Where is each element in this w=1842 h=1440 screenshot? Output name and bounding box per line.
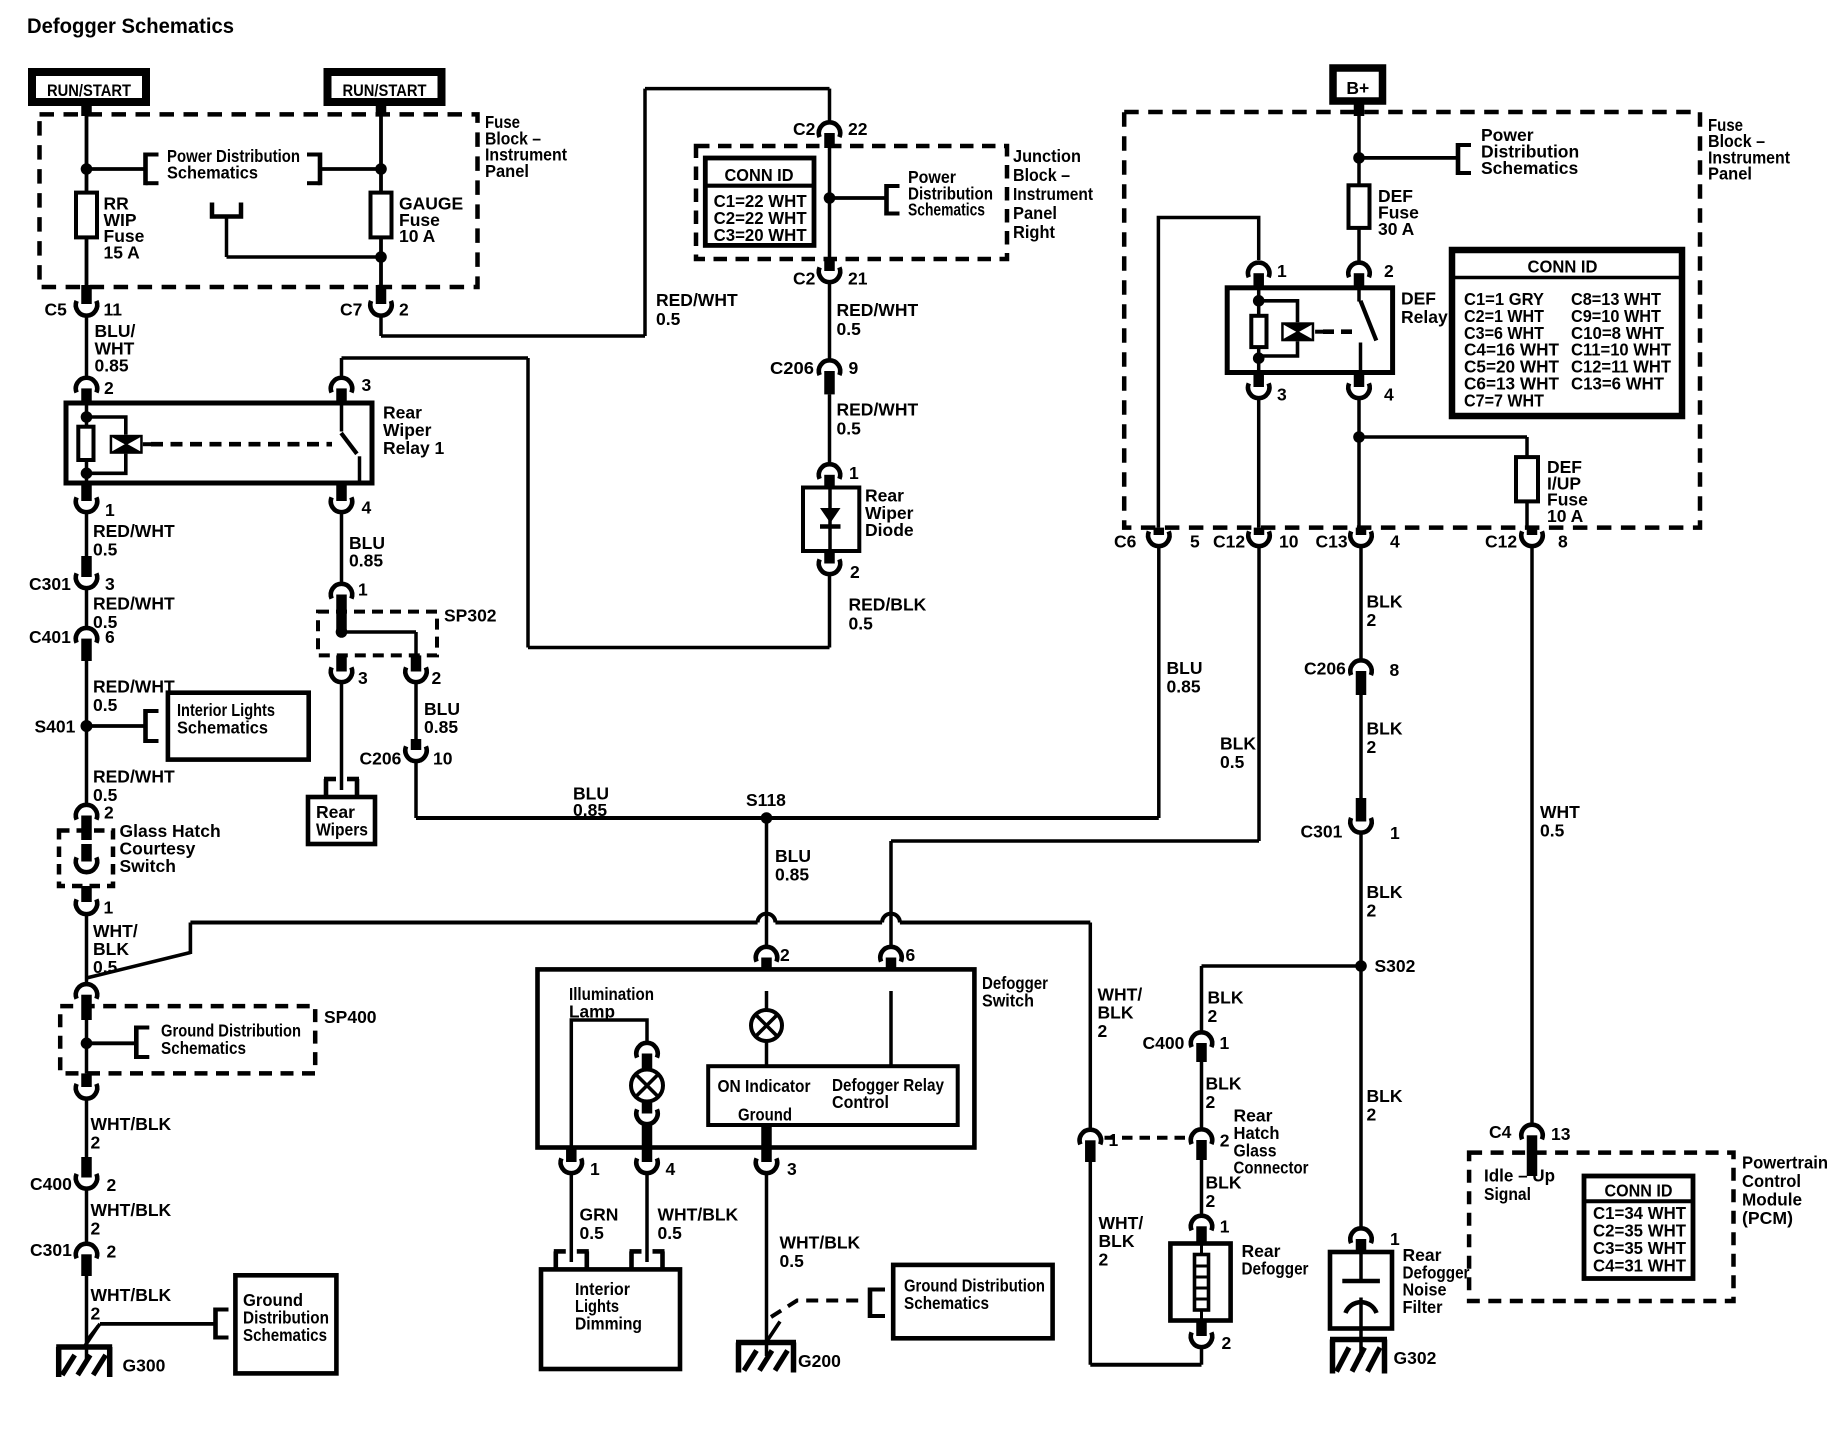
svg-text:2: 2 (104, 803, 114, 823)
svg-text:Defogger Schematics: Defogger Schematics (27, 14, 234, 38)
svg-text:C4: C4 (1489, 1122, 1512, 1142)
svg-text:13: 13 (1551, 1124, 1571, 1144)
svg-text:RED/WHT: RED/WHT (837, 300, 919, 320)
svg-text:3: 3 (358, 668, 368, 688)
svg-text:WHT/BLK: WHT/BLK (91, 1114, 172, 1134)
svg-text:Module: Module (1742, 1189, 1802, 1209)
svg-text:BLK: BLK (1206, 1173, 1242, 1193)
svg-text:Connector: Connector (1234, 1158, 1309, 1178)
svg-text:6: 6 (105, 627, 115, 647)
svg-text:Schematics: Schematics (1481, 158, 1579, 178)
svg-text:BLK: BLK (1367, 718, 1403, 738)
svg-text:11: 11 (104, 300, 123, 320)
svg-text:3: 3 (362, 375, 372, 395)
svg-text:B+: B+ (1346, 78, 1369, 98)
svg-text:1: 1 (358, 580, 368, 600)
svg-text:WHT/BLK: WHT/BLK (658, 1205, 739, 1225)
svg-text:BLU: BLU (775, 846, 811, 866)
svg-text:RED/WHT: RED/WHT (93, 767, 175, 787)
svg-text:3: 3 (1277, 385, 1287, 405)
svg-text:C400: C400 (1143, 1033, 1185, 1053)
svg-text:Dimming: Dimming (575, 1313, 642, 1333)
svg-text:Panel: Panel (485, 161, 529, 181)
svg-text:1: 1 (104, 898, 114, 918)
svg-text:Junction: Junction (1013, 146, 1081, 166)
svg-text:0.5: 0.5 (837, 319, 862, 339)
svg-text:Instrument: Instrument (1013, 184, 1093, 204)
svg-text:22: 22 (848, 119, 868, 139)
svg-text:WHT/: WHT/ (1098, 985, 1143, 1005)
svg-text:SP302: SP302 (444, 606, 497, 626)
svg-text:0.85: 0.85 (349, 551, 383, 571)
svg-text:Block –: Block – (1013, 165, 1070, 185)
svg-text:Relay 1: Relay 1 (383, 438, 445, 458)
svg-text:9: 9 (849, 358, 859, 378)
svg-text:WHT/: WHT/ (1099, 1213, 1144, 1233)
svg-text:BLK: BLK (1098, 1003, 1134, 1023)
svg-text:Control: Control (832, 1092, 889, 1112)
svg-text:2: 2 (1384, 261, 1394, 281)
svg-text:6: 6 (906, 945, 916, 965)
svg-text:C13=6 WHT: C13=6 WHT (1571, 374, 1664, 394)
svg-text:S401: S401 (35, 717, 76, 737)
svg-text:30 A: 30 A (1378, 219, 1415, 239)
svg-text:RED/WHT: RED/WHT (656, 290, 738, 310)
svg-text:0.5: 0.5 (849, 614, 874, 634)
svg-text:0.85: 0.85 (1167, 677, 1201, 697)
svg-text:RED/WHT: RED/WHT (93, 521, 175, 541)
svg-text:1: 1 (1220, 1033, 1230, 1053)
svg-text:8: 8 (1390, 660, 1400, 680)
svg-text:1: 1 (1390, 1229, 1400, 1249)
svg-text:21: 21 (848, 269, 868, 289)
svg-text:C2: C2 (793, 119, 816, 139)
svg-text:4: 4 (1390, 532, 1400, 552)
svg-text:Switch: Switch (982, 991, 1034, 1011)
svg-text:BLK: BLK (1220, 734, 1256, 754)
svg-text:2: 2 (1098, 1021, 1108, 1041)
svg-text:G300: G300 (123, 1356, 166, 1376)
svg-text:1: 1 (1220, 1217, 1230, 1237)
svg-text:2: 2 (1367, 1105, 1377, 1125)
svg-text:BLK: BLK (1367, 592, 1403, 612)
svg-text:4: 4 (666, 1159, 676, 1179)
svg-text:1: 1 (590, 1159, 600, 1179)
svg-text:Filter: Filter (1403, 1297, 1443, 1317)
svg-text:BLK: BLK (1367, 1086, 1403, 1106)
svg-text:10: 10 (1279, 532, 1299, 552)
svg-text:2: 2 (91, 1133, 101, 1153)
svg-text:1: 1 (1277, 261, 1287, 281)
svg-text:C301: C301 (29, 574, 71, 594)
svg-text:S302: S302 (1375, 956, 1416, 976)
svg-text:2: 2 (1206, 1191, 1216, 1211)
svg-text:2: 2 (91, 1219, 101, 1239)
svg-text:WHT/BLK: WHT/BLK (91, 1285, 172, 1305)
svg-text:10 A: 10 A (399, 226, 436, 246)
svg-text:2: 2 (1367, 900, 1377, 920)
svg-text:10: 10 (433, 749, 453, 769)
svg-text:Relay: Relay (1401, 307, 1448, 327)
svg-text:WHT/BLK: WHT/BLK (91, 1200, 172, 1220)
svg-text:RED/WHT: RED/WHT (93, 594, 175, 614)
svg-text:2: 2 (1220, 1131, 1230, 1151)
svg-text:2: 2 (91, 1304, 101, 1324)
svg-text:C7=7 WHT: C7=7 WHT (1464, 390, 1544, 410)
svg-text:BLK: BLK (1206, 1074, 1242, 1094)
svg-text:10 A: 10 A (1547, 506, 1584, 526)
svg-text:4: 4 (362, 498, 372, 518)
svg-text:SP400: SP400 (324, 1007, 377, 1027)
svg-text:2: 2 (399, 300, 409, 320)
svg-text:Powertrain: Powertrain (1742, 1153, 1828, 1173)
svg-text:C12: C12 (1485, 532, 1517, 552)
svg-text:C206: C206 (360, 749, 402, 769)
svg-text:ON Indicator: ON Indicator (718, 1076, 811, 1096)
svg-text:CONN ID: CONN ID (1605, 1181, 1673, 1201)
svg-text:Schematics: Schematics (161, 1038, 246, 1058)
svg-text:2: 2 (1367, 610, 1377, 630)
svg-text:C6: C6 (1114, 532, 1137, 552)
svg-text:1: 1 (849, 463, 859, 483)
svg-text:C400: C400 (30, 1174, 72, 1194)
svg-text:0.85: 0.85 (573, 800, 607, 820)
svg-text:C7: C7 (340, 300, 362, 320)
svg-text:3: 3 (105, 574, 115, 594)
svg-text:3: 3 (787, 1159, 797, 1179)
svg-text:G200: G200 (798, 1351, 841, 1371)
svg-text:Panel: Panel (1013, 203, 1057, 223)
svg-text:Diode: Diode (865, 520, 914, 540)
svg-text:WHT/BLK: WHT/BLK (780, 1233, 861, 1253)
svg-text:2: 2 (850, 562, 860, 582)
svg-text:Switch: Switch (120, 856, 176, 876)
svg-text:Ground: Ground (738, 1105, 792, 1125)
svg-text:Schematics: Schematics (177, 717, 268, 737)
svg-text:0.85: 0.85 (775, 865, 809, 885)
svg-text:RED/WHT: RED/WHT (93, 676, 175, 696)
svg-text:2: 2 (104, 378, 114, 398)
svg-text:BLK: BLK (1099, 1231, 1135, 1251)
svg-text:BLK: BLK (1208, 988, 1244, 1008)
svg-text:2: 2 (107, 1242, 117, 1262)
svg-text:2: 2 (1099, 1249, 1109, 1269)
svg-text:CONN ID: CONN ID (1528, 257, 1598, 277)
svg-text:Wipers: Wipers (316, 820, 368, 840)
svg-text:1: 1 (1109, 1130, 1119, 1150)
svg-text:GRN: GRN (580, 1205, 619, 1225)
svg-text:0.5: 0.5 (656, 309, 681, 329)
svg-text:C12: C12 (1213, 532, 1245, 552)
svg-text:Defogger: Defogger (1242, 1258, 1309, 1278)
svg-text:0.5: 0.5 (93, 540, 118, 560)
svg-text:0.85: 0.85 (424, 717, 458, 737)
svg-text:5: 5 (1190, 532, 1200, 552)
svg-text:2: 2 (1222, 1333, 1232, 1353)
svg-text:15 A: 15 A (104, 243, 141, 263)
svg-text:0.5: 0.5 (1220, 752, 1245, 772)
svg-text:C4=31 WHT: C4=31 WHT (1593, 1256, 1686, 1276)
svg-text:2: 2 (1206, 1092, 1216, 1112)
svg-text:4: 4 (1384, 385, 1394, 405)
svg-text:RED/WHT: RED/WHT (837, 400, 919, 420)
svg-text:C206: C206 (770, 358, 814, 378)
svg-text:0.5: 0.5 (837, 419, 862, 439)
svg-text:BLK: BLK (1367, 882, 1403, 902)
svg-text:Schematics: Schematics (167, 163, 258, 183)
svg-text:0.5: 0.5 (93, 695, 118, 715)
svg-text:WHT: WHT (1540, 802, 1580, 822)
svg-text:Right: Right (1013, 222, 1055, 242)
svg-text:0.85: 0.85 (95, 356, 129, 376)
svg-text:Panel: Panel (1708, 164, 1752, 184)
svg-text:RUN/START: RUN/START (343, 81, 428, 100)
svg-text:Control: Control (1742, 1171, 1801, 1191)
svg-text:Signal: Signal (1484, 1184, 1531, 1204)
svg-text:C5: C5 (45, 300, 68, 320)
svg-text:DEF: DEF (1401, 288, 1436, 308)
svg-text:C206: C206 (1304, 659, 1346, 679)
svg-text:C3=20 WHT: C3=20 WHT (714, 225, 807, 245)
svg-text:0.5: 0.5 (658, 1223, 683, 1243)
svg-text:2: 2 (432, 668, 442, 688)
svg-text:C301: C301 (30, 1240, 72, 1260)
svg-text:2: 2 (780, 945, 790, 965)
svg-text:2: 2 (1208, 1006, 1218, 1026)
svg-text:Idle – Up: Idle – Up (1484, 1166, 1555, 1186)
svg-text:BLU: BLU (1167, 658, 1203, 678)
svg-text:(PCM): (PCM) (1742, 1208, 1793, 1228)
svg-text:0.5: 0.5 (1540, 821, 1565, 841)
svg-text:BLK: BLK (93, 939, 129, 959)
svg-text:BLU: BLU (424, 699, 460, 719)
svg-text:C13: C13 (1316, 532, 1348, 552)
svg-text:0.5: 0.5 (780, 1251, 805, 1271)
svg-text:C2: C2 (793, 269, 816, 289)
svg-text:0.5: 0.5 (580, 1223, 605, 1243)
svg-text:RUN/START: RUN/START (47, 81, 132, 100)
svg-text:WHT/: WHT/ (93, 921, 138, 941)
svg-text:1: 1 (105, 500, 115, 520)
svg-text:1: 1 (1390, 823, 1400, 843)
svg-text:C301: C301 (1301, 822, 1343, 842)
svg-text:S118: S118 (746, 790, 786, 810)
svg-text:RED/BLK: RED/BLK (849, 595, 927, 615)
svg-text:CONN ID: CONN ID (725, 165, 794, 185)
svg-text:Schematics: Schematics (243, 1325, 327, 1345)
svg-text:Schematics: Schematics (908, 200, 985, 220)
svg-text:2: 2 (107, 1175, 117, 1195)
svg-text:Schematics: Schematics (904, 1293, 989, 1313)
svg-text:C401: C401 (29, 627, 71, 647)
svg-text:G302: G302 (1394, 1348, 1437, 1368)
svg-text:2: 2 (1367, 737, 1377, 757)
svg-text:8: 8 (1558, 532, 1568, 552)
